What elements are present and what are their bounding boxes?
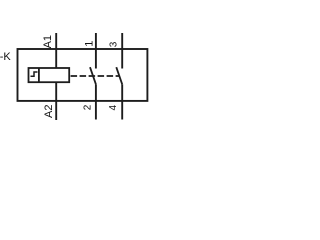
svg-text:A1: A1: [42, 35, 54, 48]
contact 3-4 upper wire: [121, 33, 123, 69]
contact 1-2 upper wire: [95, 33, 97, 69]
svg-text:4: 4: [108, 105, 119, 111]
mechanical linkage (dashed): [71, 75, 120, 77]
svg-text:A2: A2: [43, 105, 55, 118]
svg-text:3: 3: [109, 41, 120, 47]
latching (impulse) step symbol: [31, 72, 38, 76]
svg-text:-K: -K: [0, 51, 11, 63]
coil compartment divider: [38, 68, 40, 82]
svg-text:2: 2: [83, 104, 94, 110]
contact 1-2 lower wire: [95, 84, 97, 119]
relay K1 outline box: [18, 49, 148, 101]
contact 3-4 lower wire: [121, 84, 123, 119]
contact 1-2 blade (NO): [90, 67, 96, 84]
contact 3-4 blade (NO): [116, 67, 122, 84]
coil K1 box: [29, 68, 70, 82]
svg-text:1: 1: [83, 41, 95, 47]
wire A1 (vertical, top): [55, 33, 57, 68]
wire A2 (vertical, bottom): [55, 82, 57, 120]
